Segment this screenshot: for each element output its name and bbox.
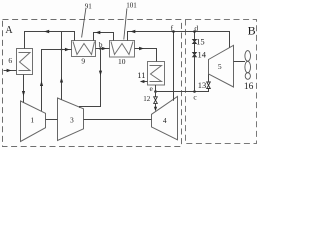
svg-text:12: 12 (143, 95, 151, 103)
svg-text:c: c (193, 92, 197, 101)
node b (99, 47, 102, 50)
shaft 1-3 (46, 119, 58, 121)
heat exchanger 6 (box) (17, 49, 33, 75)
svg-text:91: 91 (85, 2, 93, 10)
svg-text:11: 11 (137, 70, 145, 80)
shaft 3-4 (84, 119, 152, 121)
svg-text:1: 1 (30, 116, 34, 125)
heat exchanger 10 (box) (110, 41, 135, 58)
wire 6 outlet to compressor 1 (23, 75, 25, 103)
fan 16 lower blade (245, 73, 250, 80)
svg-text:3: 3 (70, 116, 74, 125)
node e (154, 90, 157, 93)
dashed enclosure box A (3, 20, 182, 147)
shaft 5-16 (234, 61, 246, 63)
wire node d down through valves 15 and 14 to node c (194, 32, 196, 92)
svg-text:B: B (248, 24, 256, 38)
ambient inlet stub into 6 (4, 70, 17, 72)
valve 15 (193, 39, 197, 43)
wire 9 to 10 (96, 48, 110, 50)
wire compressor 1 outlet to 9 inlet (42, 50, 72, 111)
svg-text:13: 13 (198, 80, 207, 90)
compressor 3 (trapezoid) (58, 98, 84, 141)
svg-text:101: 101 (126, 2, 137, 10)
node d (193, 30, 196, 33)
wire 11 outlet to node e (155, 85, 157, 92)
compressor 1 (trapezoid) (21, 101, 46, 142)
dashed enclosure box B (186, 20, 257, 144)
wire 10 to 11 (135, 49, 157, 62)
wire loop 10-top to 9-top (94, 33, 114, 41)
wire node b down to compressor 3 (80, 49, 101, 108)
turbine 5 (trapezoid) (209, 45, 234, 87)
svg-text:5: 5 (218, 62, 222, 71)
heat exchanger 11 (box) (148, 62, 165, 86)
svg-text:14: 14 (197, 50, 206, 60)
junction of riser and 9-inlet wire (61, 49, 63, 51)
wire 9-top to 6-top (25, 32, 75, 49)
heat exchanger 11 coil zigzag (150, 66, 162, 82)
svg-text:6: 6 (8, 56, 12, 65)
fan 16 upper blade (245, 51, 251, 62)
svg-text:9: 9 (81, 56, 85, 65)
svg-text:4: 4 (163, 116, 167, 125)
node c (193, 90, 196, 93)
leader line 91 (82, 9, 86, 38)
svg-text:15: 15 (196, 36, 205, 46)
svg-text:b: b (99, 40, 103, 49)
fan 16 middle blade (245, 61, 251, 72)
svg-text:16: 16 (244, 82, 254, 92)
leader line 101 (124, 8, 127, 39)
svg-text:d: d (194, 24, 198, 33)
wire compressor 3 outlet riser (61, 32, 63, 100)
wire node f down to turbine 4 (173, 32, 175, 101)
heat exchanger 9 internal W (73, 42, 95, 55)
svg-text:A: A (5, 25, 13, 36)
wire node e down through valve 12 into turbine 4 (155, 92, 157, 97)
wire node e to node c to valve 13 (156, 89, 209, 92)
heat exchanger 6 coil zigzag (19, 53, 31, 71)
svg-text:e: e (149, 84, 153, 93)
heat exchanger 10 internal W (111, 42, 133, 55)
valve 12 (154, 97, 158, 104)
wire 10-top to turbine 5 via f and d (128, 32, 230, 48)
heat exchanger 9 (box) (72, 41, 96, 57)
valve 13 (207, 82, 211, 89)
node f (172, 30, 175, 33)
svg-text:10: 10 (118, 57, 126, 66)
valve 14 (193, 52, 197, 56)
turbine 4 (trapezoid) (152, 97, 178, 140)
exhaust stub from 11 (144, 81, 148, 83)
